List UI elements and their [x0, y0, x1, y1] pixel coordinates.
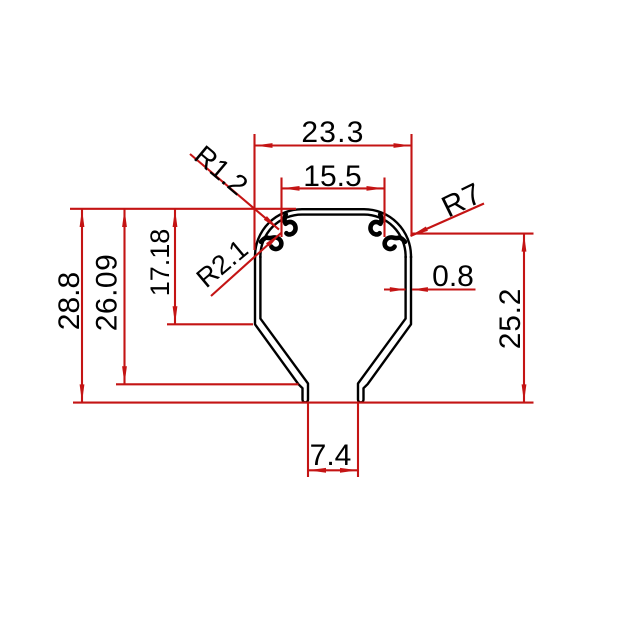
arrow 15.5 right — [367, 186, 385, 191]
23.3 dimension line — [255, 144, 412, 146]
0.8 left leader segment — [384, 288, 406, 290]
top extension line — [70, 208, 296, 210]
left boss lower hook — [261, 237, 281, 249]
arrow 0.8 left — [390, 287, 406, 292]
profile right wall and right leg — [358, 256, 411, 402]
15.5 right extension line — [383, 178, 385, 238]
arrow 17.18 top — [173, 209, 178, 227]
svg-text:15.5: 15.5 — [303, 160, 361, 193]
15.5 dimension line — [282, 187, 385, 189]
17.18 bottom extension line — [167, 323, 253, 325]
25.2 dimension line — [523, 234, 525, 403]
bottom extension line — [73, 402, 534, 404]
25.2 top extension line — [412, 233, 534, 235]
svg-text:0.8: 0.8 — [432, 260, 474, 293]
26.09 dimension line — [123, 209, 125, 384]
screw bosses — [261, 215, 405, 250]
15.5 left extension line — [280, 178, 282, 238]
arrow 23.3 right — [394, 143, 412, 148]
right boss upper hook (mirror) — [370, 215, 381, 235]
R7 leader line — [411, 204, 485, 237]
0.8 right leader segment — [412, 288, 476, 290]
R1.2 leader line — [190, 154, 279, 230]
arrow 7.4 right — [340, 468, 358, 473]
profile outer top edge with R7 corners — [255, 209, 411, 258]
svg-text:26.09: 26.09 — [91, 254, 124, 332]
profile left wall and left leg — [255, 256, 308, 402]
17.18 dimension line — [174, 209, 176, 324]
7.4 left extension line — [307, 404, 309, 478]
arrow 0.8 right — [412, 287, 428, 292]
arrow R1.2 — [264, 216, 279, 230]
arrow R2.1 — [266, 233, 281, 247]
svg-text:23.3: 23.3 — [301, 116, 364, 149]
left boss upper hook — [285, 215, 296, 235]
svg-text:25.2: 25.2 — [494, 288, 527, 350]
arrow 25.2 bottom — [522, 384, 527, 402]
23.3 right extension line — [410, 134, 412, 236]
arrow 25.2 top — [522, 234, 527, 252]
7.4 dimension line — [308, 469, 358, 471]
7.4 right extension line — [357, 404, 359, 478]
28.8 dimension line — [81, 209, 83, 402]
arrow R7 — [411, 227, 428, 237]
svg-text:28.8: 28.8 — [53, 272, 86, 330]
arrow 26.09 top — [122, 209, 127, 227]
arrow 7.4 left — [308, 468, 326, 473]
arrow 28.8 top — [80, 209, 85, 227]
svg-text:17.18: 17.18 — [145, 229, 175, 297]
26.09 bottom extension line — [116, 383, 299, 385]
arrow 26.09 bottom — [122, 366, 127, 384]
arrow 15.5 left — [282, 186, 300, 191]
23.3 left extension line — [253, 134, 255, 250]
R2.1 leader line — [211, 233, 281, 296]
arrow 28.8 bottom — [80, 384, 85, 402]
right boss lower hook (mirror) — [385, 237, 405, 249]
profile inner top edge — [260, 215, 405, 258]
arrow 23.3 left — [255, 143, 273, 148]
arrowheads — [80, 143, 527, 473]
svg-text:7.4: 7.4 — [310, 439, 352, 472]
arrow 17.18 bottom — [173, 306, 178, 324]
